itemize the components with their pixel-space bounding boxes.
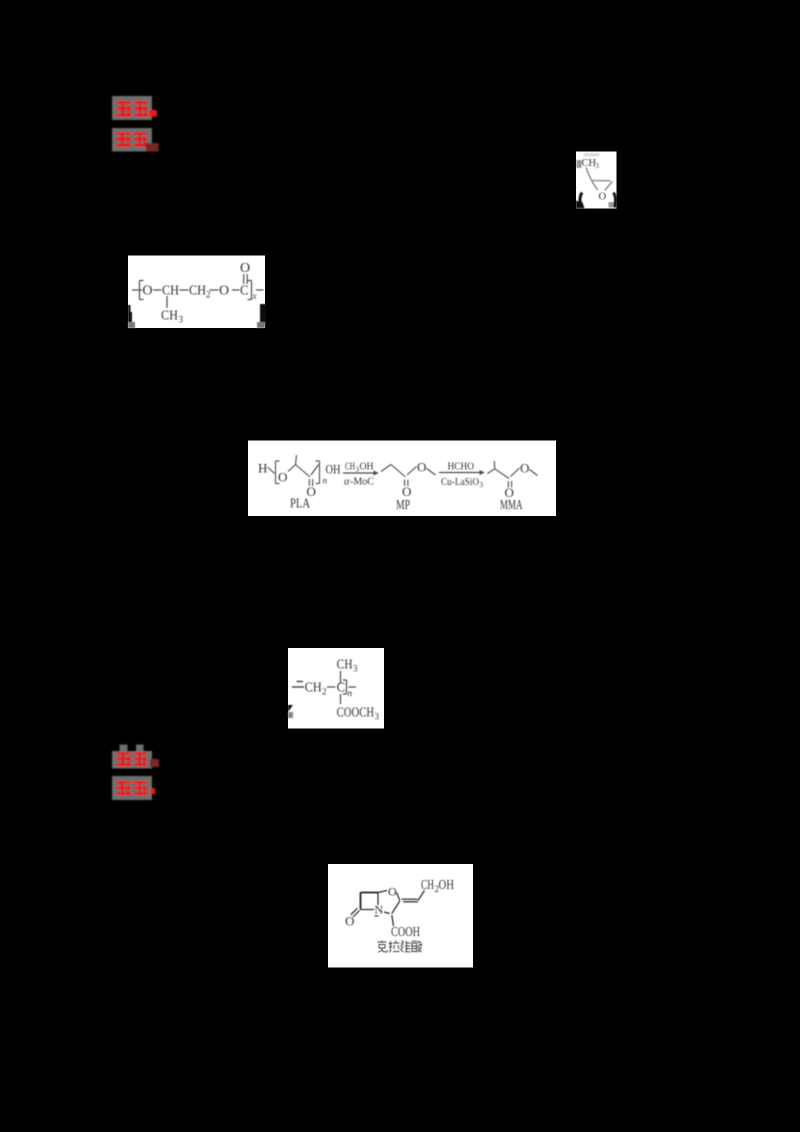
svg-text:O: O: [520, 461, 529, 476]
svg-text:CH: CH: [189, 284, 206, 299]
svg-text:PLA: PLA: [290, 496, 310, 511]
svg-text:x: x: [252, 291, 257, 301]
svg-text:COOCH: COOCH: [337, 706, 375, 721]
svg-text:MMA: MMA: [500, 497, 523, 512]
svg-text:C: C: [240, 284, 249, 299]
svg-text:HCHO: HCHO: [448, 462, 475, 473]
svg-text:COOH: COOH: [391, 925, 420, 940]
svg-text:OH: OH: [360, 462, 374, 473]
svg-text:CH: CH: [345, 462, 355, 473]
svg-text:C: C: [337, 681, 346, 696]
svg-text:3: 3: [480, 481, 484, 489]
svg-text:CH: CH: [582, 158, 597, 169]
svg-text:O: O: [345, 914, 354, 929]
svg-text:CH: CH: [421, 878, 434, 893]
svg-text:N: N: [375, 903, 384, 917]
svg-text:2: 2: [322, 687, 327, 697]
svg-text:O: O: [219, 284, 229, 299]
svg-text:OH: OH: [326, 462, 341, 477]
svg-text:O: O: [142, 284, 152, 299]
svg-text:O: O: [417, 460, 426, 475]
svg-text:O: O: [388, 885, 397, 899]
svg-text:OH: OH: [439, 878, 455, 893]
svg-text:CH: CH: [305, 681, 322, 696]
svg-text:3: 3: [179, 315, 184, 325]
svg-text:MP: MP: [396, 497, 410, 512]
svg-text:n: n: [323, 476, 328, 486]
svg-text:3: 3: [353, 664, 358, 674]
svg-text:CH: CH: [337, 658, 353, 673]
svg-text:O: O: [599, 192, 607, 203]
svg-text:O: O: [240, 261, 250, 276]
svg-text:2: 2: [206, 290, 211, 300]
svg-text:CH: CH: [162, 284, 179, 299]
svg-text:CH: CH: [161, 309, 178, 324]
svg-text:Cu-LaSiO: Cu-LaSiO: [441, 477, 479, 488]
svg-text:3: 3: [596, 162, 600, 170]
svg-text:3: 3: [375, 712, 380, 722]
svg-text:n: n: [348, 688, 353, 698]
svg-text:-MoC: -MoC: [350, 477, 374, 488]
svg-text:H: H: [258, 461, 267, 476]
svg-text:O: O: [278, 470, 287, 485]
